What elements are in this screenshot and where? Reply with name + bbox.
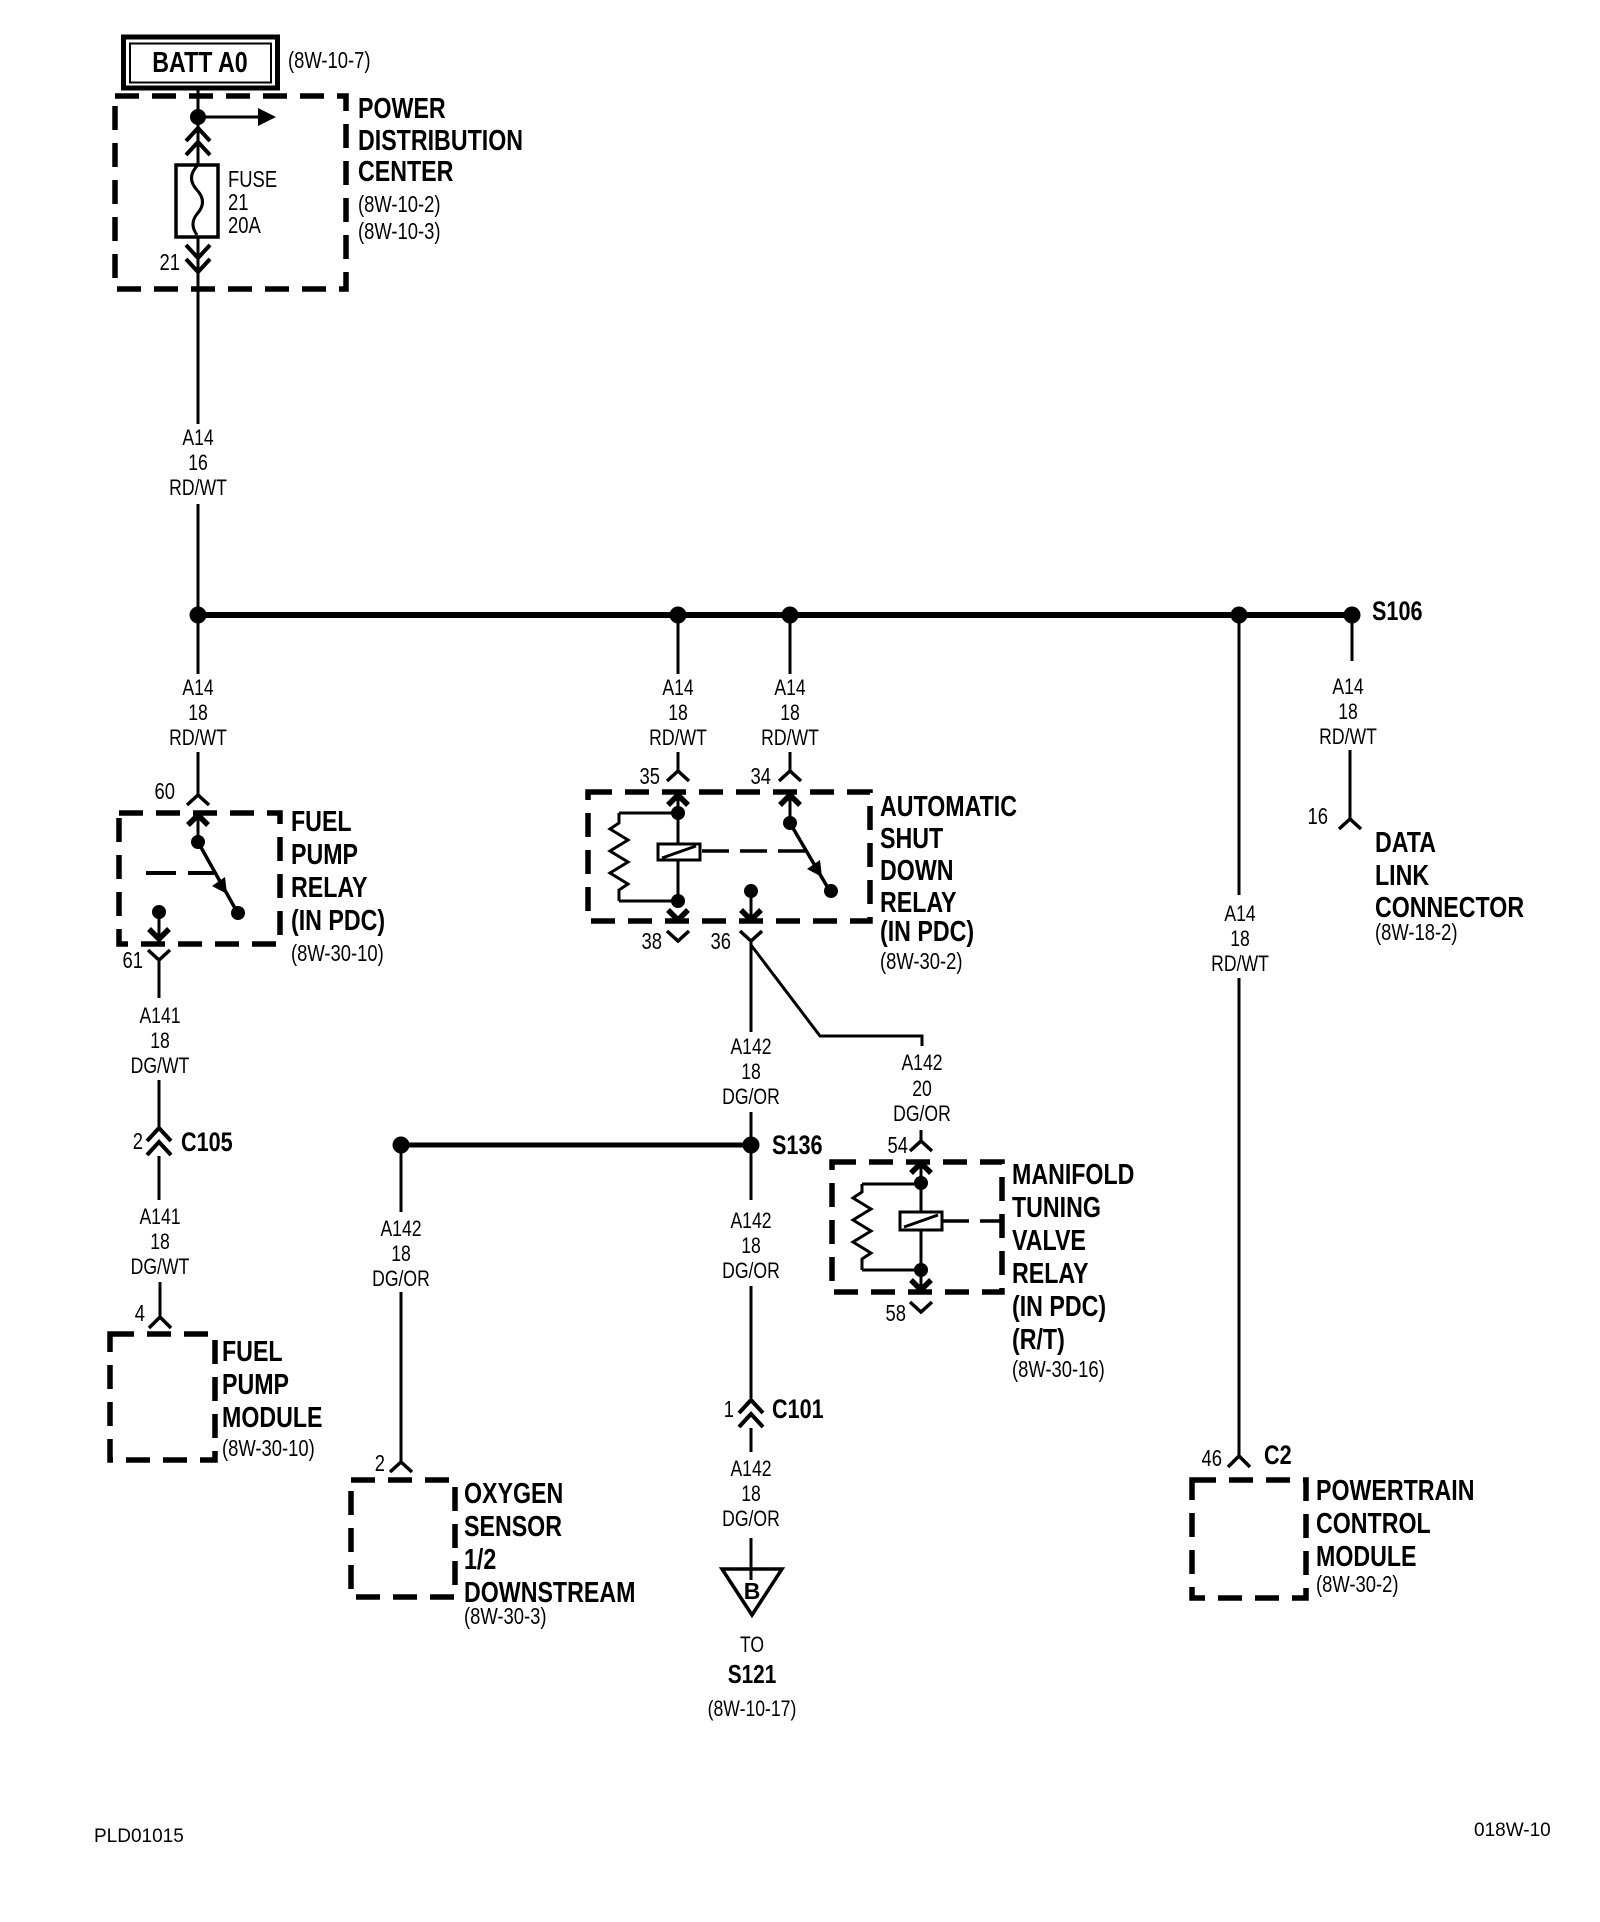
svg-text:18: 18 [780, 700, 800, 725]
svg-text:LINK: LINK [1375, 860, 1429, 892]
svg-text:54: 54 [888, 1132, 909, 1158]
svg-text:C2: C2 [1264, 1440, 1292, 1470]
svg-text:18: 18 [150, 1028, 170, 1053]
svg-text:A14: A14 [1224, 901, 1255, 926]
svg-text:RELAY: RELAY [880, 887, 957, 919]
svg-text:A14: A14 [182, 425, 213, 450]
svg-text:16: 16 [188, 450, 208, 475]
svg-text:RD/WT: RD/WT [169, 725, 227, 750]
svg-text:A141: A141 [139, 1003, 180, 1028]
svg-text:(IN PDC): (IN PDC) [291, 905, 385, 937]
svg-text:B: B [744, 1578, 761, 1604]
svg-text:(8W-30-10): (8W-30-10) [291, 940, 384, 966]
svg-text:RD/WT: RD/WT [1211, 951, 1269, 976]
svg-text:SENSOR: SENSOR [464, 1511, 562, 1543]
svg-text:(8W-30-2): (8W-30-2) [880, 948, 963, 974]
svg-text:A142: A142 [901, 1050, 942, 1075]
svg-text:18: 18 [741, 1233, 761, 1258]
svg-text:DG/OR: DG/OR [722, 1506, 780, 1531]
svg-text:1/2: 1/2 [464, 1544, 496, 1576]
svg-text:RD/WT: RD/WT [649, 725, 707, 750]
svg-text:PUMP: PUMP [222, 1369, 289, 1401]
svg-text:4: 4 [135, 1300, 145, 1326]
svg-text:(8W-30-2): (8W-30-2) [1316, 1571, 1399, 1597]
svg-text:(8W-18-2): (8W-18-2) [1375, 919, 1458, 945]
svg-text:2: 2 [375, 1450, 385, 1476]
svg-text:SHUT: SHUT [880, 823, 943, 855]
svg-text:(8W-10-17): (8W-10-17) [708, 1696, 797, 1721]
svg-text:(8W-30-16): (8W-30-16) [1012, 1356, 1105, 1382]
svg-text:VALVE: VALVE [1012, 1225, 1086, 1257]
svg-text:18: 18 [668, 700, 688, 725]
svg-text:POWERTRAIN: POWERTRAIN [1316, 1475, 1475, 1507]
svg-text:DOWN: DOWN [880, 855, 954, 887]
svg-text:18: 18 [741, 1481, 761, 1506]
svg-text:PUMP: PUMP [291, 839, 358, 871]
svg-text:18: 18 [150, 1229, 170, 1254]
svg-text:A142: A142 [380, 1216, 421, 1241]
svg-text:CENTER: CENTER [358, 156, 453, 188]
svg-text:21: 21 [160, 249, 181, 275]
svg-text:018W-10: 018W-10 [1474, 1820, 1551, 1841]
svg-text:(8W-10-7): (8W-10-7) [288, 47, 371, 73]
svg-text:34: 34 [751, 763, 772, 789]
svg-text:FUEL: FUEL [222, 1336, 283, 1368]
svg-text:RELAY: RELAY [291, 872, 368, 904]
svg-text:18: 18 [188, 700, 208, 725]
svg-text:TUNING: TUNING [1012, 1192, 1101, 1224]
svg-text:DG/WT: DG/WT [131, 1053, 190, 1078]
svg-text:POWER: POWER [358, 93, 446, 125]
svg-text:DISTRIBUTION: DISTRIBUTION [358, 125, 523, 157]
svg-text:A14: A14 [182, 675, 213, 700]
svg-text:DG/OR: DG/OR [372, 1266, 430, 1291]
svg-text:CONTROL: CONTROL [1316, 1508, 1431, 1540]
svg-text:S136: S136 [772, 1130, 823, 1160]
svg-text:20A: 20A [228, 212, 261, 238]
svg-text:RD/WT: RD/WT [169, 475, 227, 500]
svg-text:18: 18 [391, 1241, 411, 1266]
svg-text:RD/WT: RD/WT [761, 725, 819, 750]
svg-text:A142: A142 [730, 1456, 771, 1481]
svg-text:BATT A0: BATT A0 [152, 47, 247, 79]
svg-text:18: 18 [741, 1059, 761, 1084]
svg-text:1: 1 [724, 1396, 734, 1422]
svg-text:C101: C101 [772, 1394, 824, 1424]
svg-text:(8W-10-2): (8W-10-2) [358, 191, 441, 217]
svg-text:58: 58 [886, 1300, 907, 1326]
svg-text:MODULE: MODULE [222, 1402, 323, 1434]
svg-text:S106: S106 [1372, 596, 1423, 626]
svg-text:A14: A14 [1332, 674, 1363, 699]
svg-text:S121: S121 [728, 1659, 777, 1689]
svg-text:(IN PDC): (IN PDC) [1012, 1291, 1106, 1323]
svg-text:TO: TO [740, 1632, 764, 1657]
svg-text:MANIFOLD: MANIFOLD [1012, 1159, 1134, 1191]
svg-text:18: 18 [1230, 926, 1250, 951]
svg-text:OXYGEN: OXYGEN [464, 1478, 563, 1510]
svg-text:RELAY: RELAY [1012, 1258, 1089, 1290]
svg-text:DG/OR: DG/OR [722, 1258, 780, 1283]
svg-text:18: 18 [1338, 699, 1358, 724]
svg-text:60: 60 [155, 778, 176, 804]
svg-text:38: 38 [642, 928, 663, 954]
svg-text:A142: A142 [730, 1208, 771, 1233]
svg-text:A14: A14 [662, 675, 693, 700]
svg-text:16: 16 [1308, 803, 1329, 829]
svg-text:FUEL: FUEL [291, 806, 352, 838]
svg-text:61: 61 [123, 947, 144, 973]
svg-text:DG/OR: DG/OR [722, 1084, 780, 1109]
svg-text:35: 35 [640, 763, 661, 789]
svg-text:36: 36 [711, 928, 732, 954]
svg-text:2: 2 [133, 1128, 143, 1154]
svg-text:A14: A14 [774, 675, 805, 700]
svg-text:DATA: DATA [1375, 827, 1436, 859]
svg-text:MODULE: MODULE [1316, 1541, 1417, 1573]
svg-text:RD/WT: RD/WT [1319, 724, 1377, 749]
svg-text:(8W-30-3): (8W-30-3) [464, 1603, 547, 1629]
svg-text:PLD01015: PLD01015 [94, 1826, 184, 1847]
svg-text:(R/T): (R/T) [1012, 1324, 1065, 1356]
svg-text:AUTOMATIC: AUTOMATIC [880, 791, 1017, 823]
svg-text:C105: C105 [181, 1127, 233, 1157]
svg-text:(IN PDC): (IN PDC) [880, 916, 974, 948]
svg-text:DG/WT: DG/WT [131, 1254, 190, 1279]
svg-text:A142: A142 [730, 1034, 771, 1059]
svg-text:DG/OR: DG/OR [893, 1101, 951, 1126]
svg-text:(8W-30-10): (8W-30-10) [222, 1435, 315, 1461]
svg-text:46: 46 [1202, 1445, 1223, 1471]
svg-text:A141: A141 [139, 1204, 180, 1229]
svg-text:20: 20 [912, 1076, 932, 1101]
svg-text:(8W-10-3): (8W-10-3) [358, 218, 441, 244]
